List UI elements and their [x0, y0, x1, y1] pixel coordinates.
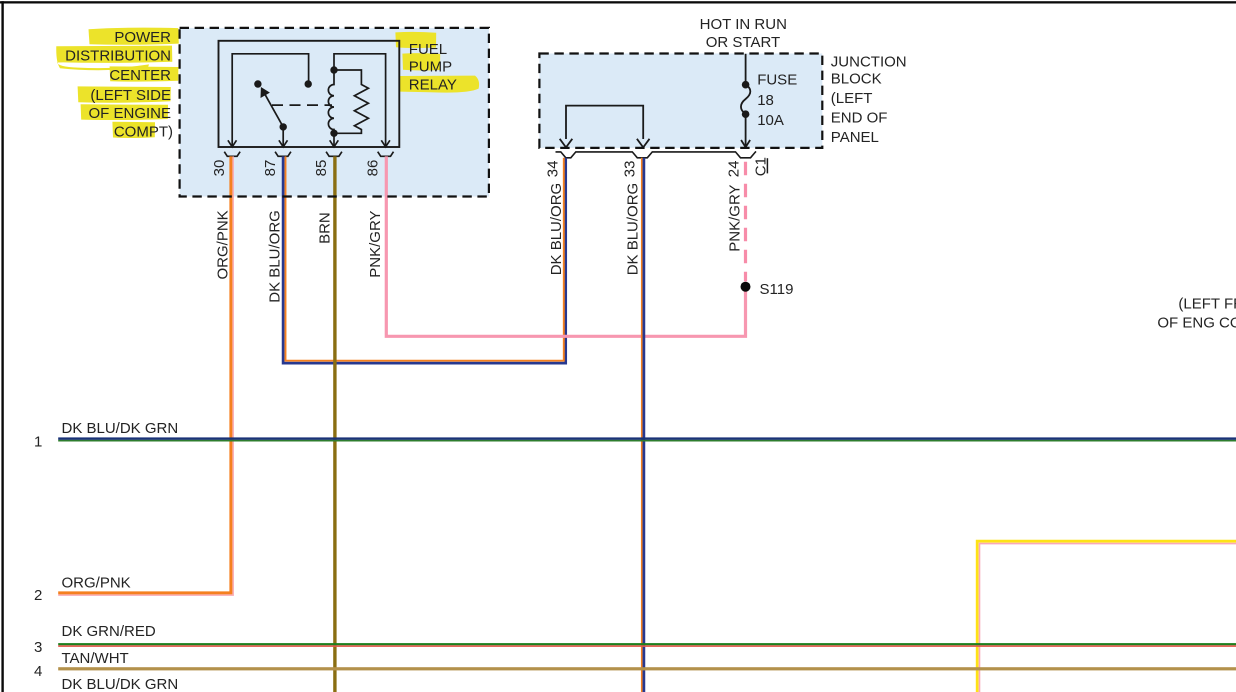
pin 33 arrowhead [637, 139, 650, 148]
svg-text:FUSE: FUSE [757, 71, 797, 88]
highlight COMPT [112, 122, 155, 138]
pin 85 arrowhead [330, 140, 339, 147]
svg-text:DK BLU/DK GRN: DK BLU/DK GRN [62, 676, 179, 692]
wire YEL/PNK from right edge down : yellow core [977, 541, 1236, 692]
page border left [1, 1, 3, 692]
resistor (coil suppression) [334, 70, 368, 133]
coil top dot [330, 66, 337, 73]
svg-text:POWER: POWER [114, 29, 171, 46]
wire PNK/GRY pin 86 to splice S119 [386, 156, 745, 336]
svg-text:DK GRN/RED: DK GRN/RED [62, 623, 156, 640]
wire ORG/PNK pin 30 to row 2 : orange core [58, 156, 231, 593]
switch armature arrowhead [261, 87, 270, 98]
svg-text:TAN/WHT: TAN/WHT [62, 650, 129, 667]
junction connector C1 rail with cups [556, 152, 757, 158]
relay actuation dashed link [272, 104, 332, 106]
svg-text:PNK/GRY: PNK/GRY [367, 210, 384, 277]
svg-text:33: 33 [621, 161, 638, 178]
relay coil [328, 70, 334, 133]
svg-text:(LEFT FRONT: (LEFT FRONT [1178, 296, 1236, 313]
svg-text:PANEL: PANEL [831, 129, 879, 146]
svg-text:(LEFT SIDE: (LEFT SIDE [90, 87, 171, 104]
fuse output lead [745, 114, 747, 146]
pin 86 arrowhead [381, 140, 390, 147]
svg-text:JUNCTION: JUNCTION [831, 53, 907, 70]
switch fixed contact dot [305, 80, 312, 87]
fuse output arrowhead [741, 140, 750, 147]
highlight DISTRIBUTION [56, 46, 172, 71]
fuse top dot [742, 81, 750, 89]
fuse 18 feed line [745, 54, 747, 81]
svg-text:(LEFT: (LEFT [831, 90, 873, 107]
wire DK BLU/ORG pin 33 to bottom : orange tracer [641, 158, 643, 692]
highlight CENTER [110, 66, 179, 81]
highlight LEFT SIDE [78, 86, 171, 102]
row 1 wire DK BLU/DK GRN : navy [58, 437, 1236, 440]
svg-text:END OF: END OF [831, 110, 888, 127]
highlight PUMP [402, 53, 440, 70]
highlight FUEL [395, 32, 436, 48]
pin 87 arrowhead [279, 140, 288, 147]
coil bottom dot [330, 130, 337, 137]
pin 30 arrowhead [228, 140, 237, 147]
svg-text:DK BLU/ORG: DK BLU/ORG [625, 183, 642, 276]
power distribution center box fill [180, 28, 489, 197]
row 3 wire DK GRN/RED : green [58, 643, 1236, 645]
svg-text:2: 2 [34, 587, 42, 604]
svg-text:FUEL: FUEL [409, 41, 447, 58]
svg-text:OF ENG COMPT): OF ENG COMPT) [1157, 314, 1236, 331]
svg-text:DK BLU/DK GRN: DK BLU/DK GRN [62, 420, 179, 437]
svg-text:CENTER: CENTER [109, 67, 171, 84]
svg-text:ORG/PNK: ORG/PNK [214, 210, 231, 279]
junction block dashed border [539, 54, 822, 148]
junction block box fill [539, 54, 822, 148]
wire DK BLU/ORG pin 87 to pin 34 : orange tracer [286, 156, 564, 360]
wire ORG/PNK pink tracer [58, 156, 233, 595]
pin 30 internal lead [232, 54, 308, 146]
row 3 wire red tracer [58, 645, 1236, 647]
wire YEL/PNK pink tracer [980, 544, 1236, 692]
wire DK BLU/ORG pin 33 to bottom : navy core [643, 158, 646, 692]
svg-text:4: 4 [34, 663, 42, 680]
switch armature [263, 92, 283, 127]
wire PNK/GRY dashed pin 24 to S119 [744, 162, 747, 282]
row 1 wire green tracer [58, 440, 1236, 442]
C1 label underline [766, 158, 768, 173]
pin 87 internal lead [282, 127, 284, 146]
connector cup pin 30 [224, 152, 240, 157]
svg-text:87: 87 [262, 160, 279, 177]
junction block internals [560, 54, 751, 148]
power distribution center dashed border [180, 28, 489, 197]
row 4 wire TAN/WHT [58, 667, 1236, 670]
svg-text:PUMP: PUMP [409, 59, 452, 76]
switch lower contact dot [280, 123, 287, 130]
svg-text:HOT IN RUN: HOT IN RUN [700, 16, 787, 33]
svg-text:COMPT): COMPT) [114, 124, 173, 141]
wire DK BLU/ORG pin 87 to pin 34 : navy core [283, 156, 566, 363]
svg-text:BLOCK: BLOCK [831, 71, 882, 88]
highlight POWER [89, 28, 179, 45]
connector cup pin 85 [326, 152, 342, 157]
svg-text:DK BLU/ORG: DK BLU/ORG [266, 210, 283, 303]
svg-text:DISTRIBUTION: DISTRIBUTION [65, 48, 171, 65]
relay inner box U1 [219, 41, 400, 147]
svg-text:OR START: OR START [706, 34, 780, 51]
connector cup pin 87 [275, 152, 291, 157]
pin 86 internal lead [334, 54, 386, 146]
highlighter marks group [56, 28, 479, 138]
svg-text:86: 86 [365, 160, 382, 177]
svg-text:RELAY: RELAY [409, 76, 457, 93]
svg-text:BRN: BRN [317, 212, 334, 244]
svg-text:10A: 10A [757, 112, 784, 129]
svg-text:1: 1 [34, 433, 42, 450]
svg-text:ORG/PNK: ORG/PNK [62, 575, 131, 592]
svg-text:18: 18 [757, 92, 774, 109]
svg-text:30: 30 [211, 160, 228, 177]
svg-text:34: 34 [545, 161, 562, 178]
svg-text:S119: S119 [760, 281, 794, 298]
splice S119 dot [741, 282, 751, 292]
fuse bottom dot [742, 110, 750, 118]
svg-text:3: 3 [34, 639, 42, 656]
svg-text:C1: C1 [752, 157, 769, 176]
pin 34 arrowhead [560, 139, 573, 148]
page border top [0, 1, 1236, 3]
switch pivot dot [254, 80, 261, 87]
fuse element [741, 85, 750, 114]
junction bracket pins 34-33 [566, 106, 643, 139]
wire BRN pin 85 to bottom [333, 156, 336, 692]
highlight OF ENGINE [81, 104, 168, 120]
svg-text:85: 85 [313, 160, 330, 177]
svg-text:OF ENGINE: OF ENGINE [88, 105, 171, 122]
label POWER DISTRIBUTION CENTER [65, 29, 173, 141]
highlight RELAY [400, 76, 480, 93]
connector cup pin 86 [378, 152, 394, 157]
svg-text:24: 24 [726, 161, 743, 178]
pin 85 internal lead [333, 133, 335, 146]
svg-text:PNK/GRY: PNK/GRY [727, 184, 744, 251]
svg-text:DK BLU/ORG: DK BLU/ORG [548, 183, 565, 276]
